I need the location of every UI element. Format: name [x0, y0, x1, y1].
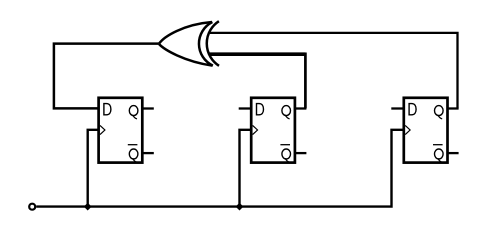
input terminal (clock input pin)	[29, 204, 35, 210]
U2 pin Qbar stub	[295, 152, 307, 154]
U1 pin Q stub	[142, 107, 154, 109]
wire: clock rail bottom	[36, 130, 402, 207]
wire: U2 Q to XOR bottom input (thick)	[209, 53, 305, 109]
U1 label D	[104, 104, 111, 115]
U3 pin D stub	[391, 107, 404, 109]
wire: XOR output feedback to U1 D	[54, 44, 159, 109]
U2 label Qbar	[280, 145, 290, 163]
junction at U2 clock tap	[236, 203, 244, 211]
U3 pin Q stub	[448, 107, 459, 109]
wire: clock riser to U2	[240, 130, 251, 208]
U3 label Qbar	[433, 145, 443, 163]
U1 label Q	[129, 106, 138, 119]
U3 label D	[409, 104, 416, 115]
D flip-flop U1 body	[99, 98, 143, 163]
D flip-flop U2 body	[251, 98, 295, 163]
U3 clock triangle	[405, 125, 410, 134]
D flip-flop U3 body	[404, 98, 448, 163]
XOR gate U4	[159, 21, 219, 66]
U2 pin D stub	[239, 107, 252, 109]
U2 clock triangle	[253, 125, 258, 134]
U1 clock triangle	[100, 125, 105, 134]
junction at U1 clock tap	[84, 203, 92, 211]
U1 label Qbar	[128, 145, 138, 163]
wire: U3 Q to XOR top input	[210, 33, 458, 109]
wire: clock riser to U1	[88, 130, 98, 208]
U3 label Q	[435, 106, 444, 119]
U2 label D	[257, 104, 264, 115]
U2 pin Q stub	[295, 107, 307, 109]
U3 pin Qbar stub	[448, 152, 459, 154]
U1 pin Qbar stub	[142, 152, 154, 154]
U2 label Q	[282, 106, 291, 119]
